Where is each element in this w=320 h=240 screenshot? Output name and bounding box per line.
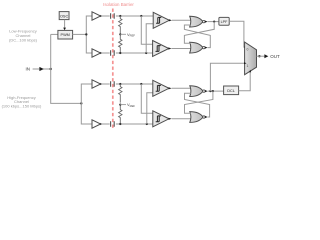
svg-text:0: 0 [247, 47, 249, 51]
wire OSC to PWM [64, 20, 66, 29]
isolation barrier dashed line [112, 9, 114, 130]
wire mux out [258, 55, 260, 57]
svg-text:1: 1 [247, 64, 249, 68]
wire latch2 feedback cross [185, 91, 213, 113]
node VREF LF [119, 33, 121, 35]
resistor LF top [119, 15, 121, 17]
svg-text:(100 kbps...150 Mbps): (100 kbps...150 Mbps) [2, 104, 42, 109]
wire HF split vertical [80, 102, 82, 104]
schmitt U4 bottom [153, 111, 169, 127]
schmitt U2 bottom [153, 41, 169, 57]
node VREF HF [119, 104, 121, 106]
gate NOR2 [190, 42, 203, 53]
wire DCL to MUX select [239, 72, 251, 91]
wire IN vertical to PWM and HF channel [51, 34, 82, 103]
wire LF top branch [101, 15, 110, 17]
svg-text:Isolation Barrier: Isolation Barrier [103, 2, 134, 7]
schmitt U1 top [153, 12, 169, 28]
junction IN split [50, 68, 52, 70]
wire NOR3 to MUX input 1 [210, 63, 244, 91]
schmitt U3 top [153, 80, 169, 96]
svg-text:DCL: DCL [227, 89, 235, 93]
wire HF bottom branch [101, 123, 110, 125]
capacitor LF bottom [111, 50, 115, 55]
buffer HF bottom [92, 120, 101, 128]
gate NOR4 [190, 112, 203, 123]
svg-text:(DC...100 kbps): (DC...100 kbps) [9, 38, 38, 43]
wire LF bottom branch [101, 52, 110, 54]
gate NOR3 [190, 86, 203, 97]
junction LF crossover [140, 15, 142, 17]
wire LPF to MUX input 0 [229, 21, 244, 47]
wire IN arrow [33, 68, 51, 70]
buffer LF top [92, 12, 101, 20]
label High-Frequency Channel [2, 95, 42, 109]
svg-text:OSC: OSC [60, 14, 68, 18]
resistor LF bottom [119, 34, 122, 53]
buffer HF top [92, 80, 101, 88]
junction HF crossover [140, 83, 142, 85]
logic DCL [224, 86, 239, 95]
svg-text:IN: IN [26, 67, 31, 72]
resistor HF bottom [119, 105, 122, 123]
filter LPF [219, 17, 229, 25]
modulator PWM [58, 30, 73, 39]
wire latch1 feedback cross [184, 22, 214, 44]
svg-text:PWM: PWM [61, 33, 70, 37]
svg-text:LPF: LPF [221, 20, 229, 24]
wire schmitt U1 to NOR1 [172, 19, 191, 21]
label Low-Frequency Channel [9, 29, 38, 43]
svg-text:OUT: OUT [270, 54, 280, 59]
wire NOR3 out to DCL [208, 90, 224, 92]
wire schmitt U3 to NOR3 [172, 87, 191, 89]
wire HF top branch [101, 83, 110, 85]
mux [245, 42, 257, 75]
buffer LF bottom [92, 49, 101, 57]
gate NOR1 [190, 16, 203, 27]
capacitor LF top [111, 13, 115, 18]
resistor HF top [119, 83, 121, 85]
wire PWM output split [73, 33, 87, 35]
oscillator OSC [59, 12, 69, 20]
capacitor HF bottom [111, 121, 115, 126]
wire schmitt U2 to NOR2 [171, 48, 191, 50]
wire NOR1 out to LPF [208, 21, 219, 23]
wire schmitt U4 to NOR4 [172, 118, 192, 120]
capacitor HF top [111, 81, 115, 86]
